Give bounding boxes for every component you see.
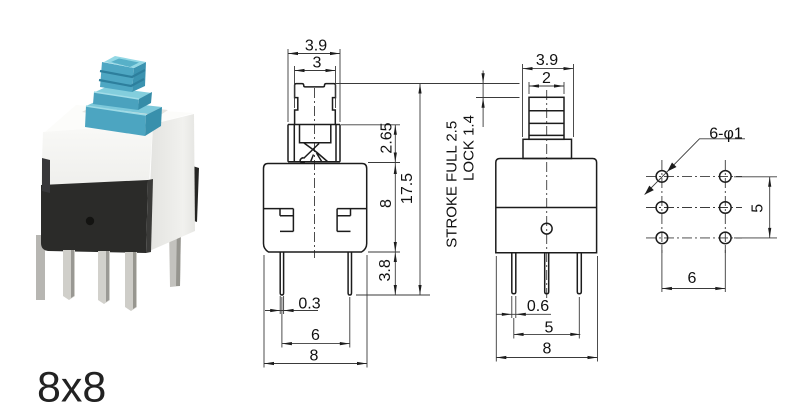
centerline	[314, 88, 316, 258]
plunger shadow on body top	[82, 102, 168, 122]
plunger stem	[529, 97, 564, 139]
body front face	[41, 124, 153, 187]
plunger bottom flange front	[85, 106, 146, 136]
plunger mid flange top highlight	[94, 92, 139, 99]
dim 6 (view3)	[662, 247, 725, 292]
svg-text:3: 3	[313, 55, 322, 72]
dim 3.8	[394, 252, 396, 295]
plunger stem top	[104, 56, 146, 68]
svg-text:2.65: 2.65	[379, 122, 396, 153]
plunger stem right	[132, 62, 146, 92]
pin 1 front	[63, 250, 75, 300]
dim 3	[295, 66, 336, 108]
plunger rib 1	[100, 70, 145, 77]
plunger bottom flange top	[86, 100, 162, 114]
back-right clip	[183, 163, 199, 222]
back-left clip	[43, 156, 53, 196]
dim 8 right	[368, 163, 400, 253]
hole B1	[720, 171, 732, 183]
svg-text:0.6: 0.6	[527, 298, 549, 315]
hole A1	[656, 171, 668, 183]
neck housing	[288, 125, 340, 162]
dim 17.5	[356, 84, 430, 296]
plunger stem sides inside neck	[300, 125, 331, 143]
svg-text:6: 6	[311, 327, 320, 344]
plunger bottom flange top highlight	[86, 106, 146, 115]
plunger rib 2	[99, 79, 144, 86]
svg-text:17.5: 17.5	[399, 173, 416, 204]
body outline	[264, 164, 367, 253]
svg-text:2: 2	[542, 70, 551, 87]
svg-text:5: 5	[750, 204, 767, 213]
svg-text:8x8: 8x8	[37, 364, 106, 412]
plunger stem front	[100, 62, 134, 92]
svg-text:6-φ1: 6-φ1	[709, 126, 743, 143]
plunger mid flange top	[95, 87, 152, 99]
back-left pin	[36, 235, 45, 300]
svg-text:STROKE FULL 2.5: STROKE FULL 2.5	[443, 121, 460, 248]
stroke ref line B	[476, 97, 520, 99]
plunger mid flange right	[138, 92, 152, 110]
pin 2 front	[98, 251, 110, 304]
plunger bottom flange right	[145, 107, 162, 136]
right pin	[348, 252, 351, 295]
body right face	[147, 114, 195, 252]
hole A2	[656, 202, 668, 214]
stroke dim line	[482, 71, 484, 128]
spring X pattern	[304, 143, 329, 162]
back-right pin	[169, 224, 181, 287]
leader 6-phi1	[645, 139, 745, 195]
hole B2	[720, 202, 732, 214]
body top face	[45, 105, 194, 132]
centerline	[546, 90, 548, 302]
hole A3	[656, 232, 668, 244]
left clip sliver	[42, 158, 50, 193]
body divider	[496, 207, 597, 209]
svg-text:8: 8	[310, 348, 319, 365]
pin 3 front	[125, 252, 137, 311]
plunger stem top recess	[111, 59, 139, 68]
dim 2.65	[341, 125, 400, 163]
circle detail	[541, 223, 552, 234]
svg-text:3.9: 3.9	[536, 52, 558, 69]
pin 1	[512, 253, 516, 294]
column centerlines	[662, 160, 725, 253]
dim 0.6	[497, 296, 552, 318]
svg-text:5: 5	[545, 320, 554, 337]
base right shade edge	[146, 179, 153, 253]
dim 2 (view2)	[529, 82, 564, 94]
svg-text:0.3: 0.3	[298, 296, 320, 313]
dim 5 (view3)	[734, 177, 777, 238]
svg-text:6: 6	[688, 270, 697, 287]
svg-text:8: 8	[543, 341, 552, 358]
base front face	[41, 180, 148, 253]
row centerlines	[646, 176, 742, 238]
pin 2	[545, 253, 549, 294]
collar	[523, 139, 572, 158]
plunger P1 outline	[295, 84, 336, 125]
dim 6 bottom	[282, 297, 350, 348]
dim 0.3	[265, 296, 318, 314]
left pin	[280, 252, 283, 295]
right notch slot	[337, 209, 367, 232]
svg-text:3.8: 3.8	[377, 259, 394, 281]
base hole	[86, 217, 94, 225]
dim 8 (view2)	[496, 256, 597, 362]
top reference line A	[336, 83, 520, 85]
pin 3	[577, 253, 581, 294]
plunger ribs	[529, 111, 564, 136]
svg-text:8: 8	[378, 199, 395, 208]
hole B3	[720, 232, 732, 244]
svg-text:LOCK 1.4: LOCK 1.4	[461, 115, 478, 181]
dim 3.9 (view2)	[523, 64, 574, 137]
dim 5 (view2)	[514, 297, 581, 339]
body	[496, 159, 597, 253]
dim 3.9 top	[288, 49, 340, 122]
svg-text:3.9: 3.9	[305, 38, 327, 55]
left notch slot	[264, 209, 294, 232]
plunger mid flange front	[93, 92, 139, 110]
spring loop	[300, 158, 305, 163]
dim 8 bottom	[264, 255, 367, 368]
